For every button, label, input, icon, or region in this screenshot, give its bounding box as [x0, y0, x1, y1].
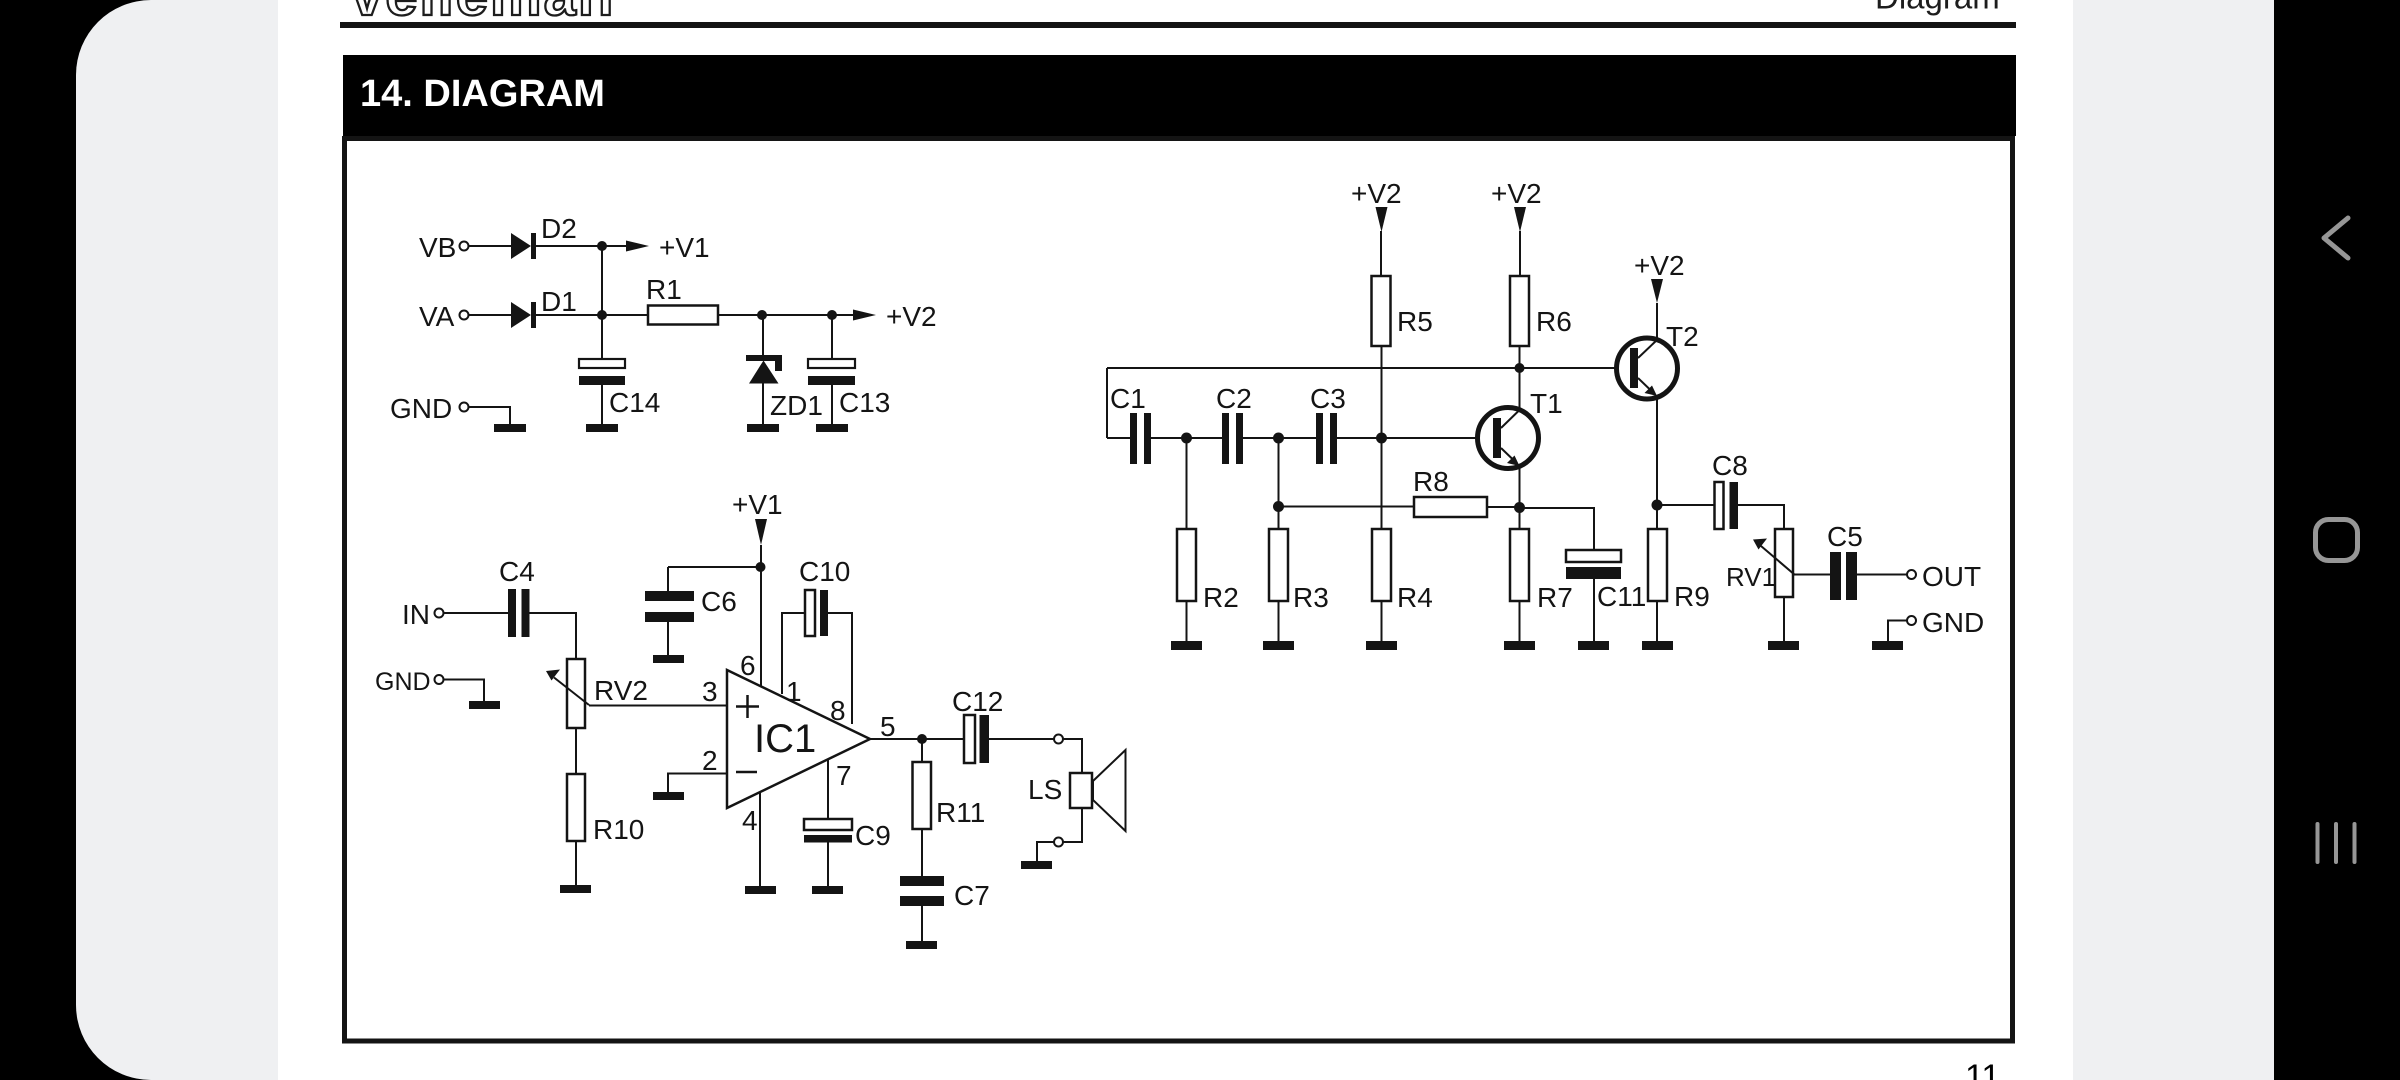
- svg-text:2: 2: [702, 745, 718, 776]
- resistor R8: [1413, 466, 1487, 517]
- terminal GND (input): [375, 668, 444, 696]
- svg-text:C13: C13: [839, 387, 890, 418]
- wire T2 emitter down: [1656, 396, 1658, 505]
- capacitor C5: [1827, 521, 1863, 600]
- net label +V2 over R5: [1351, 178, 1402, 232]
- wire +V1 down to IC1 pin 6: [760, 545, 762, 686]
- svg-text:+V2: +V2: [886, 301, 937, 332]
- wire C14 column from D2 node down: [601, 246, 603, 359]
- svg-text:OUT: OUT: [1922, 561, 1981, 592]
- ground under C7: [906, 941, 937, 949]
- pin 4 wire: [759, 792, 761, 886]
- terminal GND (supply): [390, 393, 469, 424]
- node output / R11: [917, 734, 927, 744]
- svg-text:R1: R1: [646, 274, 682, 305]
- wire C4 to RV2 top: [530, 613, 577, 659]
- resistor R5: [1372, 276, 1433, 346]
- capacitor C1: [1110, 383, 1151, 464]
- node +V1 / C6: [756, 562, 766, 572]
- wire RV1 to ground: [1783, 597, 1785, 641]
- wire +V2 to R6: [1519, 231, 1521, 276]
- pin 2 wire to ground: [668, 774, 727, 793]
- capacitor C3: [1310, 383, 1346, 464]
- svg-text:D2: D2: [541, 213, 577, 244]
- svg-text:R3: R3: [1293, 582, 1329, 613]
- svg-text:C10: C10: [799, 556, 850, 587]
- schematic frame: [345, 139, 2013, 1042]
- resistor R7: [1510, 507, 1573, 641]
- ground under RV1: [1768, 641, 1799, 650]
- svg-text:5: 5: [880, 711, 896, 742]
- node R6 / bus: [1515, 363, 1525, 373]
- wire terminal to speaker: [1063, 739, 1082, 773]
- wire LS minus to ground: [1037, 842, 1054, 861]
- svg-text:GND: GND: [375, 668, 431, 696]
- ground under R3: [1263, 641, 1294, 650]
- capacitor C12: [952, 686, 1003, 763]
- wire R1 to +V2 arrow: [718, 314, 853, 316]
- transistor T1: [1478, 388, 1563, 469]
- wire VA to D1: [469, 314, 512, 316]
- svg-text:C4: C4: [499, 556, 535, 587]
- svg-text:4: 4: [742, 805, 758, 836]
- wire VB to D2: [469, 245, 512, 247]
- net label +V1: [626, 232, 710, 263]
- ground under R10: [560, 885, 591, 893]
- op-amp IC1: [727, 670, 870, 808]
- svg-text:+V1: +V1: [732, 489, 783, 520]
- svg-text:T2: T2: [1666, 321, 1699, 352]
- svg-text:+V2: +V2: [1351, 178, 1402, 209]
- node T2 emitter / R9 / C8: [1652, 500, 1663, 511]
- wire T1 emitter down: [1519, 466, 1521, 507]
- svg-text:D1: D1: [541, 286, 577, 317]
- wire IN to C4: [444, 612, 509, 614]
- bus wire to T2 base: [1107, 367, 1617, 369]
- ground under R9: [1642, 641, 1673, 650]
- nav recents icon: [2318, 824, 2355, 862]
- svg-text:C2: C2: [1216, 383, 1252, 414]
- node C1 / C2 / R2: [1181, 433, 1192, 444]
- svg-text:C3: C3: [1310, 383, 1346, 414]
- resistor R11: [913, 739, 986, 876]
- capacitor C13: [808, 315, 890, 424]
- wire GND terminal to ground: [469, 407, 511, 424]
- svg-text:C12: C12: [952, 686, 1003, 717]
- wire speaker to LS minus: [1063, 808, 1082, 842]
- ground at pin 2: [653, 792, 684, 800]
- terminal LS minus: [1054, 838, 1063, 847]
- capacitor C10: [782, 556, 852, 724]
- capacitor C4: [499, 556, 535, 637]
- svg-text:C7: C7: [954, 880, 990, 911]
- svg-text:VB: VB: [419, 232, 456, 263]
- white document page: [278, 0, 2073, 1080]
- capacitor C2: [1216, 383, 1252, 464]
- svg-text:VA: VA: [419, 301, 455, 332]
- svg-text:RV2: RV2: [594, 675, 648, 706]
- transistor T2: [1617, 321, 1699, 399]
- ground at GND terminal: [494, 424, 526, 432]
- nav home button: [2316, 520, 2358, 561]
- ground under R7: [1504, 641, 1535, 650]
- svg-text:Diagram: Diagram: [1875, 0, 2000, 16]
- svg-text:R8: R8: [1413, 466, 1449, 497]
- potentiometer RV2: [546, 659, 648, 728]
- wire RV2 to R10: [575, 728, 577, 774]
- svg-text:14. DIAGRAM: 14. DIAGRAM: [360, 73, 605, 115]
- svg-text:C14: C14: [609, 387, 660, 418]
- wire chain C1..C3 to T1 base: [1107, 437, 1478, 439]
- terminal LS plus: [1054, 735, 1063, 744]
- svg-text:R11: R11: [936, 797, 985, 828]
- svg-text:GND: GND: [390, 393, 452, 424]
- svg-text:C1: C1: [1110, 383, 1146, 414]
- capacitor C6: [645, 567, 737, 655]
- node T1 emitter / R7 / R8 / C11: [1514, 502, 1525, 513]
- svg-text:R9: R9: [1674, 581, 1710, 612]
- capacitor C8: [1712, 450, 1748, 529]
- svg-text:C5: C5: [1827, 521, 1863, 552]
- wire node to C8: [1657, 504, 1715, 506]
- net label +V1 supply: [732, 489, 783, 545]
- wire R8 right to T1 emitter node: [1487, 506, 1520, 508]
- ground under C13: [816, 424, 848, 432]
- node R8 left / R3 column: [1273, 501, 1284, 512]
- ground under C14: [586, 424, 618, 432]
- terminal VB: [419, 232, 469, 263]
- svg-text:R10: R10: [593, 814, 644, 845]
- svg-text:C9: C9: [855, 820, 891, 851]
- wire RV1 wiper to C5: [1793, 574, 1830, 576]
- svg-text:R7: R7: [1537, 582, 1573, 613]
- svg-text:T1: T1: [1530, 388, 1563, 419]
- diode D2: [511, 213, 577, 259]
- wire output GND to ground: [1888, 621, 1907, 642]
- ground under C6: [653, 655, 684, 663]
- header rule: [340, 22, 2016, 28]
- svg-text:+V1: +V1: [659, 232, 710, 263]
- wire input GND to ground: [444, 680, 485, 702]
- node junction D1 / C14 column: [597, 310, 607, 320]
- svg-text:R5: R5: [1397, 306, 1433, 337]
- ground at output GND: [1872, 641, 1903, 650]
- capacitor C7: [900, 876, 990, 941]
- node C13 top: [827, 310, 837, 320]
- svg-text:7: 7: [836, 760, 852, 791]
- speaker LS: [1028, 750, 1126, 831]
- wire R5 down through bus to chain node: [1381, 346, 1383, 438]
- svg-text:3: 3: [702, 676, 718, 707]
- svg-text:+V2: +V2: [1491, 178, 1542, 209]
- net label +V2 over T2: [1634, 250, 1685, 303]
- diode D1: [511, 286, 577, 328]
- svg-text:ZD1: ZD1: [770, 390, 823, 421]
- wire R10 to ground: [575, 841, 577, 885]
- ground under C9: [812, 886, 843, 894]
- svg-text:GND: GND: [1922, 607, 1984, 638]
- svg-text:1: 1: [786, 676, 802, 707]
- wire node to C6: [668, 566, 760, 568]
- terminal IN: [402, 599, 444, 630]
- svg-text:6: 6: [740, 650, 756, 681]
- wire D1 to R1: [536, 314, 648, 316]
- net label +V2: [853, 301, 937, 332]
- net label +V2 over R6: [1491, 178, 1542, 232]
- resistor R3: [1269, 529, 1329, 641]
- wire IC1 output pin 5: [870, 738, 964, 740]
- svg-text:R6: R6: [1536, 306, 1572, 337]
- wire node down to R4: [1381, 438, 1383, 529]
- svg-text:11: 11: [1965, 1058, 2000, 1080]
- capacitor C14: [579, 359, 660, 424]
- wire node to R2: [1186, 438, 1188, 529]
- section title bar 14. DIAGRAM: [343, 55, 2016, 136]
- wire +V2 to R5: [1380, 231, 1382, 276]
- svg-text:LS: LS: [1028, 774, 1062, 805]
- capacitor C11: [1524, 508, 1646, 641]
- wire R6 to T1 collector: [1519, 346, 1521, 410]
- ground at pin 4: [745, 886, 776, 894]
- svg-text:IC1: IC1: [754, 717, 816, 761]
- potentiometer RV1: [1726, 529, 1795, 597]
- ground under ZD1: [747, 424, 779, 432]
- resistor R2: [1177, 529, 1239, 641]
- capacitor C9: [804, 760, 891, 886]
- svg-text:R4: R4: [1397, 582, 1433, 613]
- wire C12 to LS terminal: [989, 738, 1054, 740]
- ground at LS: [1021, 861, 1052, 869]
- node C3 / R5 / R4: [1376, 433, 1387, 444]
- resistor R9: [1648, 505, 1710, 641]
- svg-text:C8: C8: [1712, 450, 1748, 481]
- resistor R1: [646, 274, 718, 325]
- resistor R10: [567, 774, 644, 845]
- svg-text:IN: IN: [402, 599, 430, 630]
- ground under R4: [1366, 641, 1397, 650]
- node C2 / C3 / R3: [1273, 433, 1284, 444]
- svg-text:RV1: RV1: [1726, 562, 1776, 592]
- node ZD1 top: [757, 310, 767, 320]
- terminal GND (output): [1907, 607, 1984, 638]
- node junction D2 / C14 column: [597, 241, 607, 251]
- wire D2 to +V1 arrow: [536, 245, 626, 247]
- terminal OUT: [1907, 561, 1981, 592]
- resistor R4: [1372, 529, 1433, 641]
- wire C5 to OUT: [1857, 574, 1907, 576]
- zener diode ZD1: [746, 315, 823, 424]
- svg-text:C11: C11: [1597, 581, 1646, 612]
- svg-text:8: 8: [830, 695, 846, 726]
- resistor R6: [1510, 276, 1572, 346]
- wire RV2 wiper to pin 3: [589, 705, 727, 707]
- ground under C11: [1578, 641, 1609, 650]
- ground at input GND: [469, 701, 500, 709]
- wire node to R3: [1278, 438, 1280, 529]
- svg-text:+V2: +V2: [1634, 250, 1685, 281]
- svg-text:R2: R2: [1203, 582, 1239, 613]
- wire R8 left: [1279, 506, 1415, 508]
- wire C8 to RV1 top: [1738, 505, 1784, 529]
- svg-text:C6: C6: [701, 586, 737, 617]
- nav back chevron: [2324, 218, 2348, 258]
- terminal VA: [419, 301, 469, 332]
- wire riser bus to C1: [1106, 368, 1108, 438]
- ground under R2: [1171, 641, 1202, 650]
- wire +V2 to T2 collector: [1656, 303, 1658, 340]
